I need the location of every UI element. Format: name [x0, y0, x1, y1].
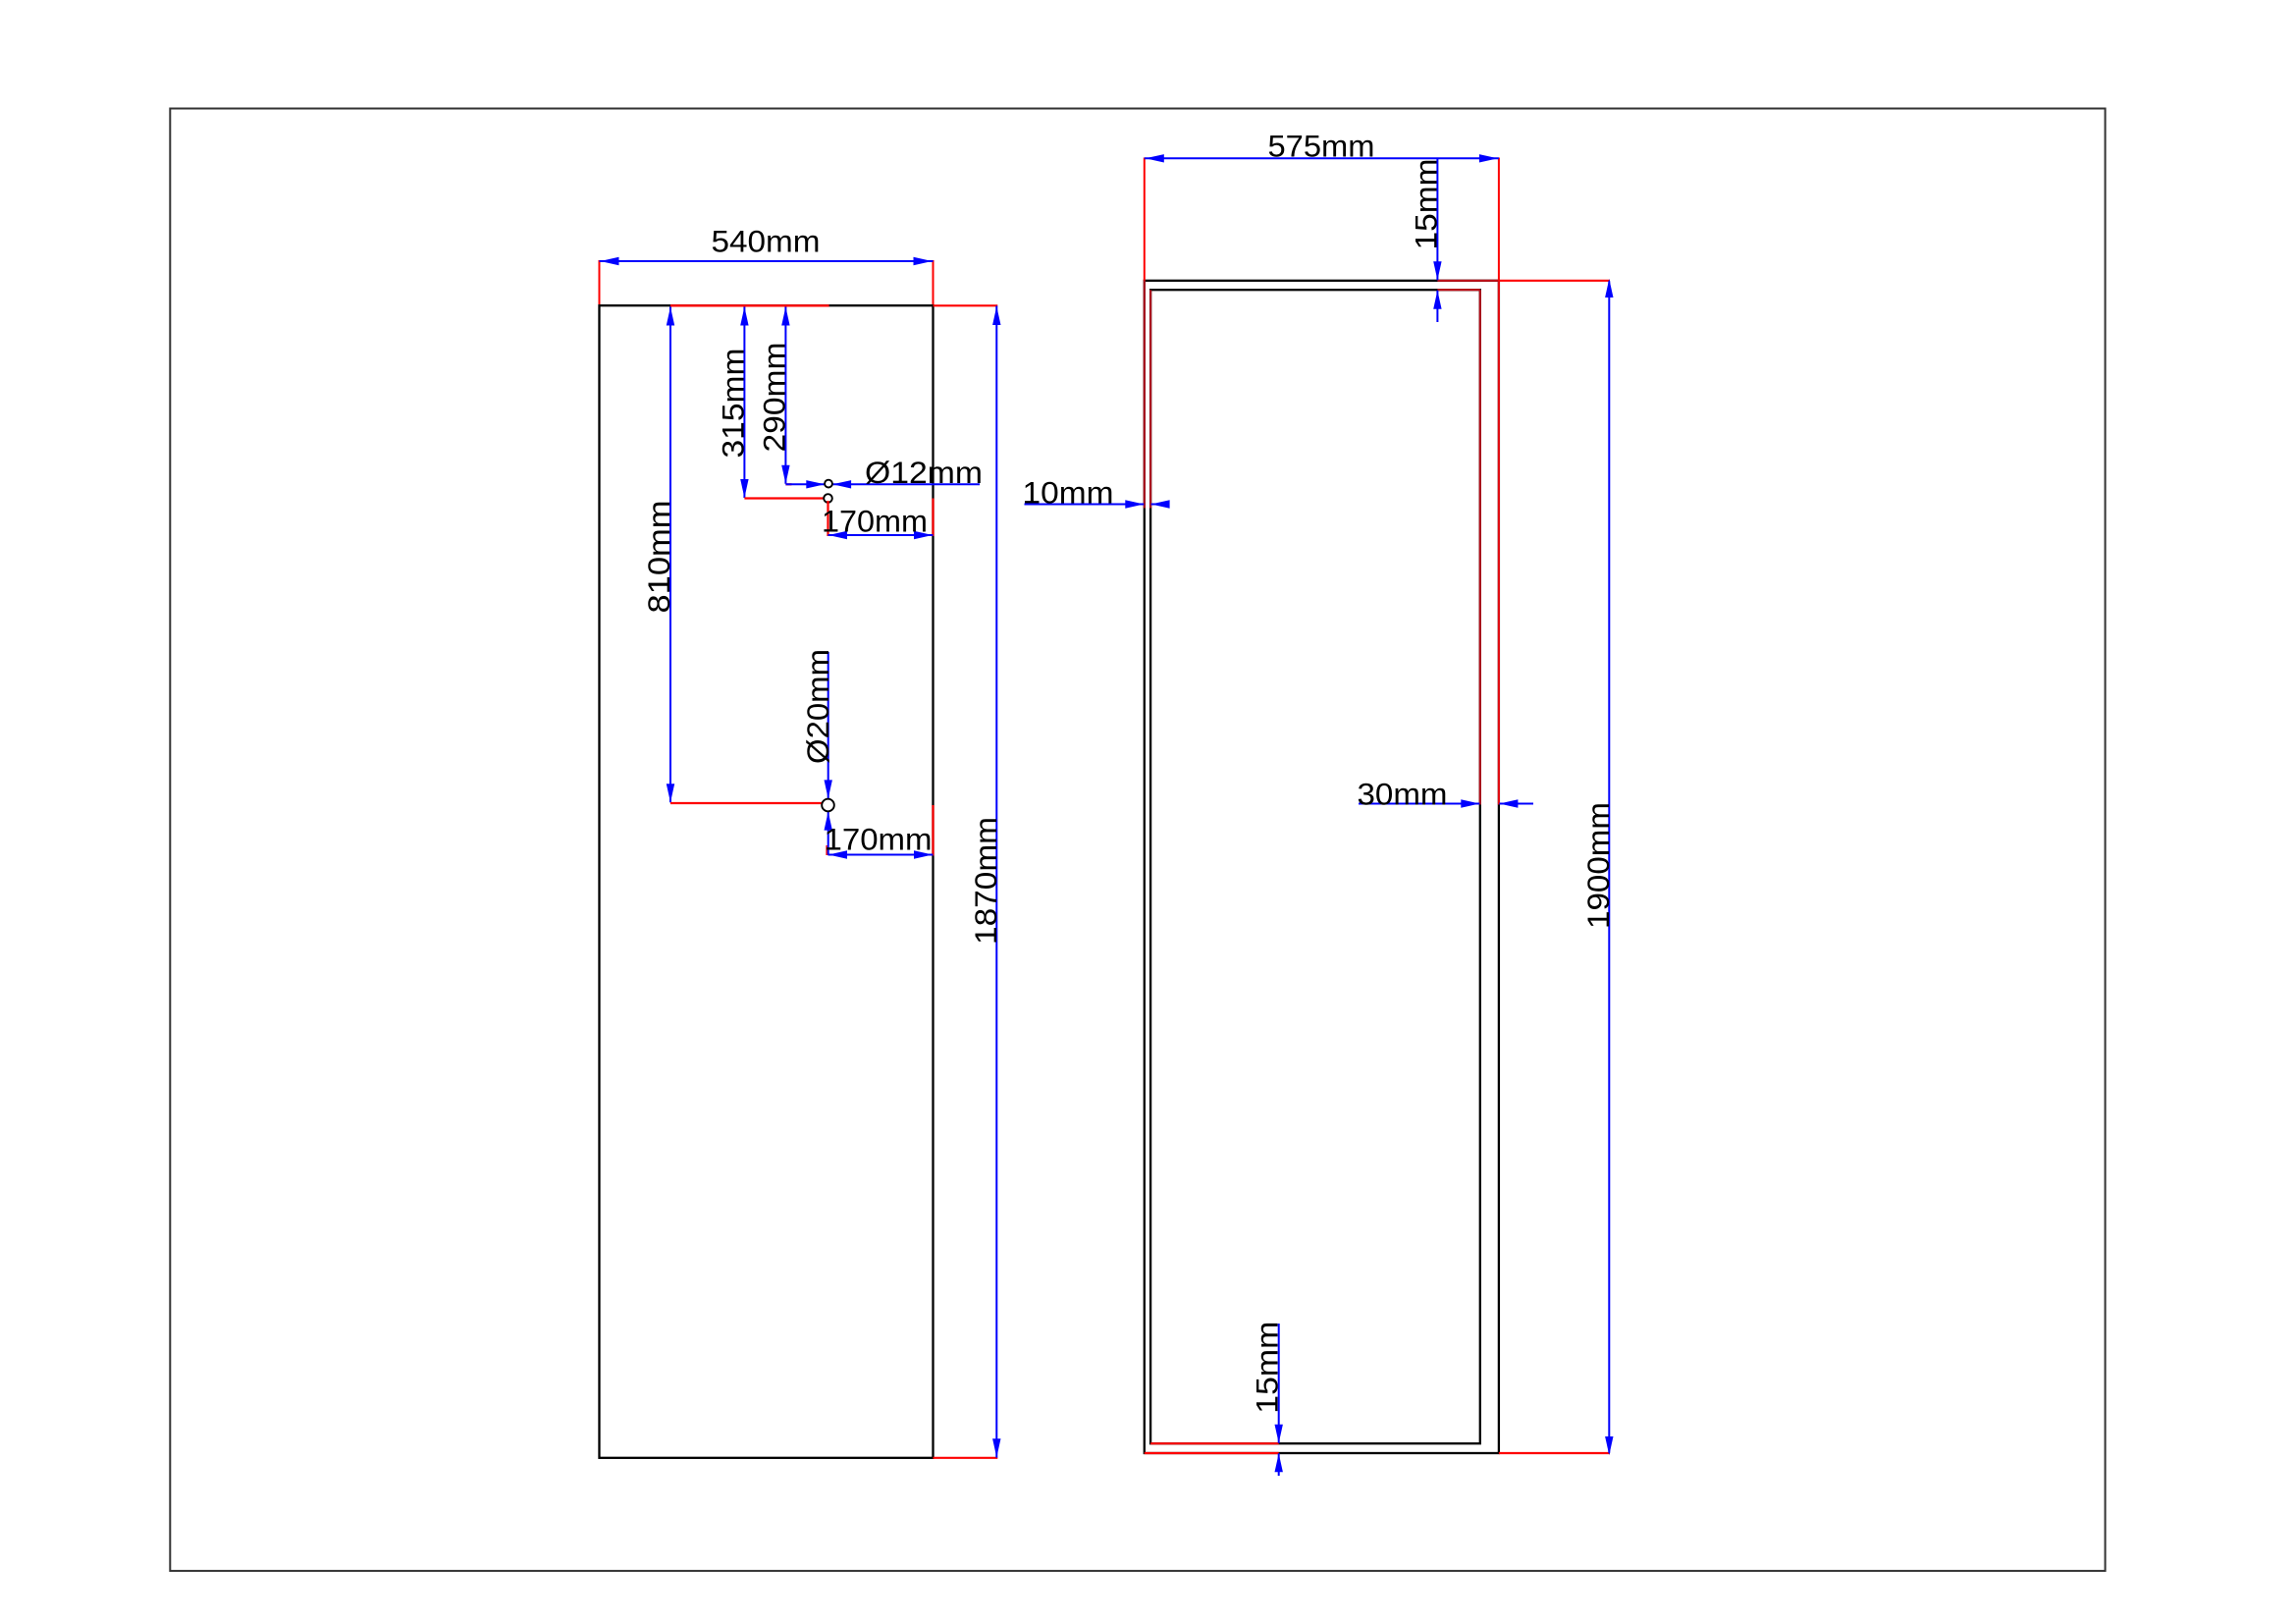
svg-text:575mm: 575mm [1268, 129, 1375, 164]
svg-text:810mm: 810mm [641, 501, 676, 614]
svg-text:10mm: 10mm [1023, 475, 1114, 511]
dimension 170mm (upper) [822, 499, 934, 540]
dimension 290mm [756, 307, 791, 485]
svg-text:1900mm: 1900mm [1580, 802, 1616, 929]
dimension 10mm [1023, 475, 1170, 511]
frame outer outline [1145, 281, 1499, 1453]
red highlight: frame right edges (top portion) [1479, 290, 1481, 804]
svg-text:Ø20mm: Ø20mm [800, 649, 835, 764]
dimension 1870mm [934, 305, 1004, 1458]
dimension 810mm [641, 307, 823, 804]
svg-text:15mm: 15mm [1250, 1322, 1285, 1414]
hole A (upper, 290mm reference) [825, 480, 832, 488]
svg-text:315mm: 315mm [715, 349, 750, 459]
dimension 540mm [600, 224, 934, 305]
left panel outline [600, 305, 934, 1458]
dimension Ø20mm [800, 649, 835, 855]
dimension 1900mm [1499, 279, 1616, 1455]
dimension 15mm (bottom) [1250, 1322, 1285, 1476]
red highlight: frame bottom edges (left portion) [1150, 1442, 1279, 1444]
hole Ø20mm [822, 799, 834, 812]
red highlight: frame left edges (top portion) [1144, 281, 1146, 509]
svg-text:540mm: 540mm [712, 224, 821, 259]
hole B (315mm reference) [824, 494, 832, 503]
svg-text:15mm: 15mm [1408, 159, 1443, 250]
svg-text:Ø12mm: Ø12mm [865, 455, 983, 490]
dimension 575mm [1145, 129, 1499, 281]
svg-text:290mm: 290mm [756, 343, 791, 453]
dimension Ø12mm [785, 455, 983, 490]
dimension 170mm (lower) [825, 805, 934, 859]
svg-text:1870mm: 1870mm [968, 817, 1003, 945]
svg-text:30mm: 30mm [1358, 777, 1448, 812]
frame inner outline [1150, 290, 1480, 1443]
dimension 315mm [715, 307, 826, 499]
left panel top edge highlight (red) [670, 304, 829, 306]
dimension 30mm [1358, 777, 1534, 812]
svg-text:170mm: 170mm [825, 822, 933, 857]
svg-text:170mm: 170mm [822, 504, 928, 539]
dimension 15mm (top) [1408, 159, 1443, 323]
red highlight: frame top edges (right portion) [1437, 280, 1499, 282]
